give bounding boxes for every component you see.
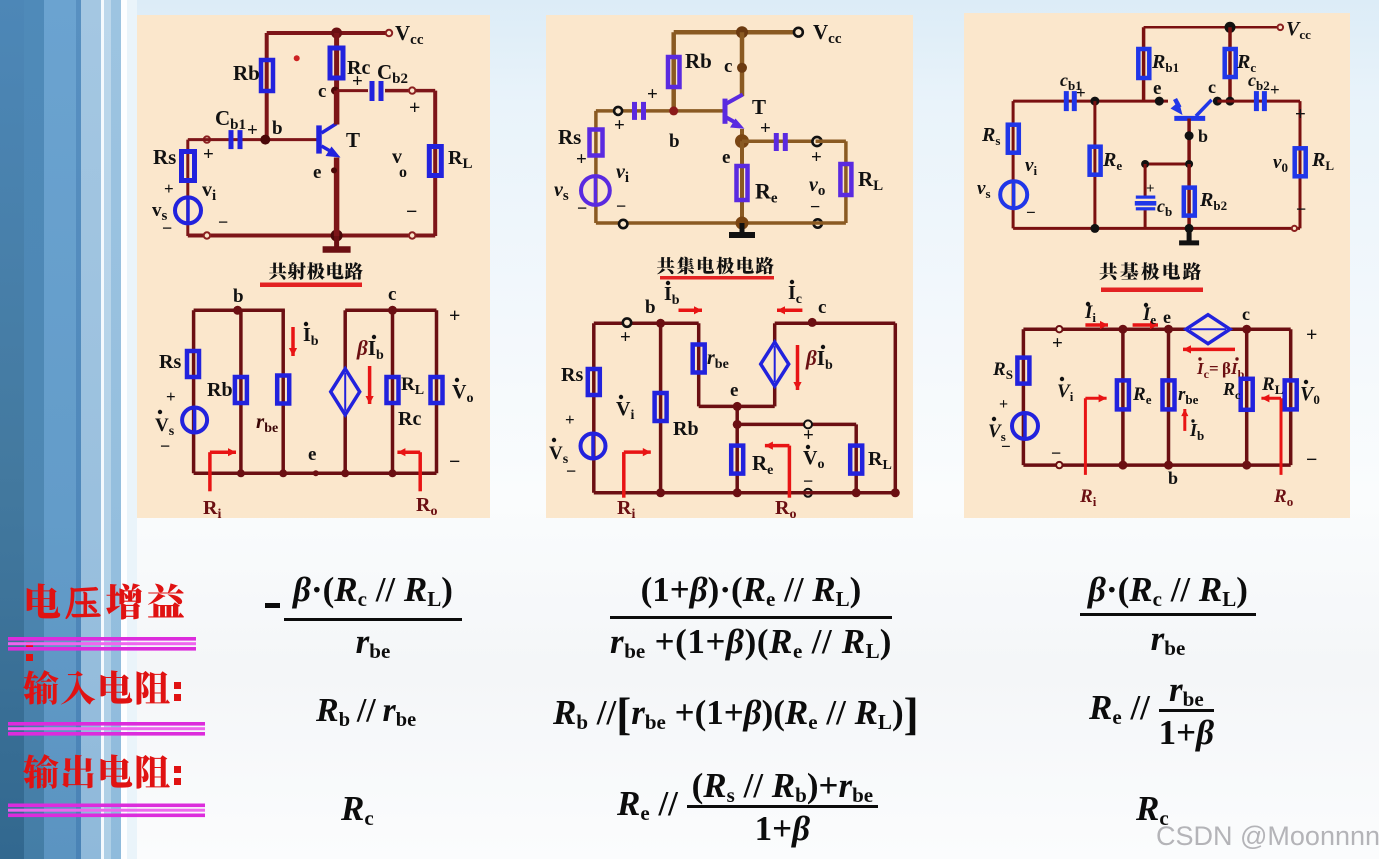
eq2 terminal out	[804, 420, 812, 428]
svg-text:+: +	[803, 425, 814, 446]
p2 source vs	[581, 176, 610, 205]
eq2 node b	[656, 319, 665, 328]
eq3 resistor Rc	[1241, 379, 1253, 410]
svg-text:−: −	[160, 436, 170, 456]
svg-text:+: +	[166, 387, 176, 406]
svg-text:−: −	[449, 451, 460, 473]
svg-text:Rs: Rs	[153, 145, 176, 169]
eq2 bottom dots	[656, 488, 665, 497]
eq2 resistor Re	[731, 446, 743, 474]
eq2 source Vs	[581, 434, 606, 459]
wire Rc branch	[334, 33, 339, 124]
p3 c out wire	[1217, 100, 1300, 103]
eq2 rbe branch	[697, 323, 701, 406]
p2 node bottom	[736, 217, 749, 230]
eq1 resistor rbe	[277, 376, 289, 404]
p3 node b	[1185, 131, 1194, 140]
watermark	[1156, 821, 1379, 852]
eq1 source branch top	[343, 310, 347, 369]
eq2 resistor RL	[850, 446, 862, 474]
svg-text:e: e	[313, 162, 321, 183]
svg-text:b: b	[233, 286, 244, 307]
svg-text:−: −	[1001, 437, 1011, 456]
label 输出电阻	[23, 754, 58, 789]
eq1 top wire left	[194, 309, 285, 313]
red dot artifact	[294, 55, 300, 61]
eq3 arrow Ro	[1280, 398, 1283, 475]
p3 node top	[1225, 22, 1236, 33]
eq2 right rail	[894, 323, 898, 493]
eq3 top wire right	[1230, 327, 1290, 331]
eq1 source Vs	[182, 408, 207, 433]
eq1 right rail	[435, 310, 439, 473]
eq1 node c	[388, 306, 397, 315]
svg-text:Rs: Rs	[159, 351, 181, 373]
resistor Rs	[182, 152, 195, 181]
eq1 node b	[233, 306, 242, 315]
transistor T	[316, 125, 322, 153]
capacitor Cb1	[229, 130, 234, 149]
svg-text:−: −	[616, 196, 626, 216]
terminal bottom left	[204, 232, 210, 238]
p2 bottom rail	[596, 221, 846, 225]
p3 Rb1 branch	[1142, 27, 1146, 101]
p2 node top	[736, 26, 748, 38]
svg-text:Rb: Rb	[673, 418, 699, 440]
eq2 node e	[733, 402, 742, 411]
svg-text:+: +	[164, 179, 174, 198]
svg-text:b: b	[645, 297, 656, 318]
eq1 arrow beta Ib	[368, 366, 372, 404]
p2 resistor Rs	[590, 130, 603, 156]
formula col2 row3: output resistance CC	[617, 768, 878, 846]
svg-text:T: T	[346, 128, 360, 152]
svg-text:Rb: Rb	[685, 49, 712, 73]
svg-text:Ic= βIb: Ic= βIb	[1196, 359, 1245, 381]
p2 top rail	[674, 30, 797, 35]
eq2 resistor Rb	[655, 393, 667, 421]
label colon 3	[174, 766, 181, 773]
eq1 arrow Ib	[291, 327, 295, 356]
p3 left rail	[1012, 101, 1015, 228]
eq2 e down wire	[735, 406, 739, 492]
eq3 rbe branch	[1167, 329, 1171, 465]
formula col1 row1: voltage gain CE	[265, 603, 280, 608]
p2 left rail	[594, 111, 598, 223]
p3 title 共基极电路	[1100, 262, 1118, 280]
formula col2 row1: voltage gain CC	[610, 572, 892, 659]
svg-text:+: +	[811, 147, 822, 168]
svg-text:e: e	[722, 147, 730, 168]
svg-text:c: c	[724, 56, 732, 77]
eq3 arrow Ie	[1133, 323, 1158, 327]
svg-text:+: +	[760, 118, 771, 139]
p3 transistor	[1174, 116, 1205, 121]
svg-text:c: c	[818, 297, 826, 318]
eq2 arrow betaIb	[796, 345, 800, 390]
source vs	[175, 197, 201, 223]
eq2 arrow Ri	[622, 452, 626, 498]
node Vcc junction	[331, 28, 342, 39]
svg-text:c: c	[1242, 304, 1250, 324]
svg-text:b: b	[1168, 468, 1178, 488]
eq1 arrow Ri	[208, 452, 212, 491]
eq1 resistor Rs	[187, 351, 199, 377]
label colon wrap	[26, 642, 33, 649]
p2 transistor T	[723, 99, 728, 124]
label 电压增益	[27, 583, 61, 618]
p2 title 共集电极电路	[657, 257, 675, 274]
p3 resistor RL	[1295, 148, 1306, 176]
formula col3 row1: voltage gain CB	[1080, 572, 1256, 656]
eq3 source Vs	[1012, 413, 1038, 439]
svg-text:+: +	[1076, 83, 1086, 102]
formula col2 row2: input resistance CC	[553, 692, 919, 737]
p3 capacitor cb	[1136, 196, 1156, 199]
p2 out corner wire	[816, 139, 846, 143]
p3 source vs	[1000, 181, 1027, 208]
svg-text:+: +	[1270, 80, 1280, 99]
wire c to Cb2	[337, 89, 368, 92]
p3 node c	[1213, 97, 1222, 106]
eq2 bottom rail	[594, 491, 896, 495]
svg-text:−: −	[577, 198, 587, 218]
svg-text:+: +	[352, 71, 363, 92]
p3 resistor Rb2	[1184, 188, 1195, 216]
eq2 node c	[808, 318, 817, 327]
formula col3 row2: input resistance CB	[1089, 672, 1214, 750]
p3 capacitor cb1	[1064, 91, 1069, 111]
eq3 bottom rail	[1023, 463, 1290, 467]
eq3 terminal top	[1056, 326, 1062, 332]
left stripe band	[0, 0, 24, 859]
node e dot	[331, 167, 337, 173]
eq1 resistor RL	[431, 377, 443, 403]
svg-text:+: +	[620, 327, 631, 348]
eq2 node e2	[733, 420, 742, 429]
formula col1 row2: input resistance CE	[316, 694, 416, 728]
wire Vcc top rail	[267, 31, 388, 35]
panel 1 background	[137, 15, 490, 518]
p3 node e	[1155, 97, 1164, 106]
svg-text:−: −	[1306, 449, 1317, 471]
p3 resistor Rs	[1008, 125, 1019, 153]
p2 terminal out	[812, 137, 821, 146]
eq2 dep branch	[773, 323, 777, 342]
eq3 node c	[1242, 325, 1251, 334]
p3 resistor Rb1	[1138, 49, 1149, 78]
p3 Rb2 branch	[1187, 164, 1191, 228]
node bottom junction	[331, 230, 343, 242]
p3 bottom dots	[1090, 224, 1099, 233]
svg-text:e: e	[730, 380, 738, 401]
p3 Rc branch	[1228, 27, 1232, 101]
underline magenta 2	[8, 722, 205, 726]
svg-text:+: +	[1295, 104, 1306, 125]
svg-text:T: T	[752, 95, 766, 119]
underline magenta 1	[8, 637, 196, 641]
wire Cb2 to corner	[385, 89, 435, 93]
eq1 Rb branch	[239, 310, 243, 473]
capacitor Cb2	[370, 81, 375, 101]
resistor RL	[429, 147, 441, 176]
p3 top rail	[1144, 26, 1278, 29]
p2 Re branch	[740, 141, 744, 223]
p2 b wire	[596, 109, 724, 113]
svg-text:b: b	[1198, 126, 1208, 146]
wire in to b	[188, 138, 318, 141]
p2 ground	[740, 223, 745, 235]
eq2 dep source	[761, 342, 789, 386]
p3 bottom rail	[1013, 227, 1300, 230]
svg-text:e: e	[1153, 78, 1161, 99]
eq1 top wire right	[345, 309, 436, 313]
terminal bottom right	[409, 232, 415, 238]
p3 resistor Rc	[1225, 49, 1236, 77]
wire Rb branch	[265, 33, 269, 140]
svg-text:Rc: Rc	[398, 408, 421, 430]
svg-text:+: +	[1052, 333, 1063, 354]
eq3 arrow Ri	[1084, 398, 1087, 475]
svg-text:−: −	[566, 461, 576, 481]
eq2 terminal b	[623, 318, 631, 326]
wire right rail	[433, 91, 437, 236]
svg-text:+: +	[203, 144, 214, 165]
svg-text:+: +	[449, 305, 460, 327]
svg-text:o: o	[399, 164, 407, 181]
p3 b branch	[1187, 119, 1191, 165]
eq3 Rc branch	[1245, 329, 1249, 465]
p3 node bw2	[1185, 160, 1193, 168]
eq3 arrow Ib	[1183, 409, 1186, 431]
eq3 left rail	[1022, 329, 1026, 465]
p2 terminal bottom left	[619, 220, 627, 228]
eq2 e wire	[699, 405, 775, 409]
p3 in wire	[1013, 100, 1168, 103]
svg-text:+: +	[247, 120, 258, 141]
eq1 bottom dots	[237, 469, 245, 477]
svg-text:+: +	[999, 396, 1008, 413]
svg-text:b: b	[272, 118, 283, 139]
eq1 dep source beta Ib	[331, 369, 360, 415]
svg-text:e: e	[1163, 307, 1171, 327]
svg-text:+: +	[1306, 324, 1317, 346]
title underline 1	[260, 283, 362, 288]
p3 terminal bottom right	[1292, 226, 1297, 231]
p3 ground	[1187, 228, 1192, 243]
resistor Rc	[330, 48, 343, 78]
svg-text:+: +	[565, 410, 575, 429]
svg-text:c: c	[318, 81, 326, 102]
eq2 top wire	[594, 322, 699, 326]
eq3 resistor Re	[1117, 380, 1129, 409]
eq3 top wire	[1023, 327, 1186, 331]
p3 resistor Re	[1090, 147, 1101, 175]
resistor Rb	[261, 60, 273, 91]
eq1 bottom rail	[194, 472, 437, 476]
p3 cb branch	[1144, 164, 1147, 196]
svg-text:+: +	[576, 149, 587, 170]
eq3 arrow Ic	[1183, 348, 1235, 352]
eq3 resistor rbe	[1163, 380, 1175, 409]
p2 resistor Re	[737, 166, 748, 200]
eq2 arrow Ib	[679, 309, 703, 313]
eq2 resistor Rs	[588, 369, 600, 395]
p3 title underline	[1101, 288, 1203, 293]
p3 right rail	[1299, 101, 1302, 228]
eq3 bottom dots	[1118, 461, 1127, 470]
eq3 node rbe top	[1164, 325, 1173, 334]
wire left rail	[186, 140, 189, 236]
p3 node in	[1090, 97, 1099, 106]
eq2 top wire right	[775, 322, 896, 326]
svg-text:+: +	[409, 97, 420, 119]
svg-text:c: c	[388, 284, 396, 305]
p2 e out wire	[742, 139, 814, 143]
eq1 source branch bottom	[343, 415, 347, 474]
eq3 resistor RL	[1285, 380, 1297, 409]
eq1 arrow Ro	[418, 452, 422, 491]
p2 node e	[735, 134, 749, 148]
p2 emitter wire	[740, 129, 744, 141]
p2 title underline	[660, 276, 774, 280]
p3 b horizontal wire	[1145, 163, 1189, 166]
p2 terminal bottom right	[814, 219, 822, 227]
p2 c branch	[740, 32, 745, 96]
p2 capacitor in	[632, 102, 637, 120]
svg-text:−: −	[162, 218, 172, 238]
eq3 right rail	[1289, 329, 1293, 465]
svg-text:−: −	[406, 201, 417, 223]
svg-text:b: b	[669, 131, 680, 152]
label colon 2	[174, 682, 181, 689]
panel 2 background	[546, 15, 913, 518]
eq3 resistor Rs	[1017, 358, 1029, 384]
p2 terminal in	[614, 107, 622, 115]
svg-text:Rb: Rb	[233, 61, 260, 85]
terminal in	[204, 136, 210, 142]
svg-text:−: −	[218, 212, 228, 232]
svg-text:Rb: Rb	[207, 379, 233, 401]
eq3 arrow Ii	[1085, 323, 1108, 327]
panel 3 background	[964, 13, 1350, 518]
title 共射极电路	[269, 262, 287, 279]
svg-text:−: −	[1051, 443, 1061, 463]
formula col3 row3: output resistance CB	[1136, 791, 1169, 826]
node c	[331, 87, 339, 95]
p2 capacitor out	[774, 133, 779, 151]
p2 node c	[737, 63, 747, 73]
ground	[334, 236, 339, 250]
eq2 arrow Ro	[788, 446, 792, 498]
label 输入电阻	[23, 670, 58, 705]
eq2 Rb branch	[659, 323, 663, 493]
svg-text:+: +	[614, 115, 625, 136]
p3 node bw1	[1141, 160, 1149, 168]
terminal out top	[409, 87, 415, 93]
wire bottom rail	[188, 234, 435, 238]
svg-text:e: e	[308, 444, 316, 465]
eq1 rbe branch	[281, 310, 285, 473]
eq3 dep source	[1186, 315, 1230, 344]
p2 terminal Vcc	[794, 28, 803, 37]
wire emitter	[334, 158, 340, 237]
eq2 resistor rbe	[693, 345, 705, 373]
p3 Re branch	[1093, 101, 1096, 228]
formula col1 row3: output resistance CE	[341, 791, 374, 826]
wire collector	[334, 91, 340, 125]
svg-text:Rs: Rs	[561, 364, 583, 386]
eq2 out wire	[737, 423, 856, 427]
svg-text:+: +	[1146, 181, 1155, 197]
eq3 Re branch	[1121, 329, 1125, 465]
p2 right rail	[844, 141, 848, 223]
p2 resistor RL	[840, 164, 851, 195]
svg-text:Rs: Rs	[558, 125, 581, 149]
eq2 RL branch	[854, 424, 858, 492]
svg-text:−: −	[810, 197, 820, 217]
eq3 terminal bottom	[1056, 462, 1062, 468]
eq1 Rc branch	[391, 310, 395, 473]
svg-text:−: −	[1026, 203, 1036, 222]
p2 node b	[669, 106, 678, 115]
p2 resistor Rb	[668, 57, 680, 87]
svg-text:−: −	[1296, 199, 1306, 219]
terminal Vcc	[386, 30, 392, 36]
p3 terminal Vcc	[1278, 25, 1284, 31]
eq1 left rail	[192, 310, 196, 473]
p3 capacitor cb2	[1254, 91, 1259, 111]
eq2 arrow Ic	[777, 309, 802, 313]
eq2 left rail	[592, 323, 596, 493]
eq1 resistor Rb	[235, 377, 247, 403]
eq3 node Re top	[1118, 325, 1127, 334]
svg-text:+: +	[647, 84, 658, 105]
svg-text:c: c	[1208, 77, 1216, 97]
node b	[260, 135, 270, 145]
underline magenta 3	[8, 804, 205, 808]
p2 Rb branch	[671, 32, 676, 111]
eq2 terminal out bottom	[804, 489, 812, 497]
eq1 resistor Rc	[387, 377, 399, 403]
